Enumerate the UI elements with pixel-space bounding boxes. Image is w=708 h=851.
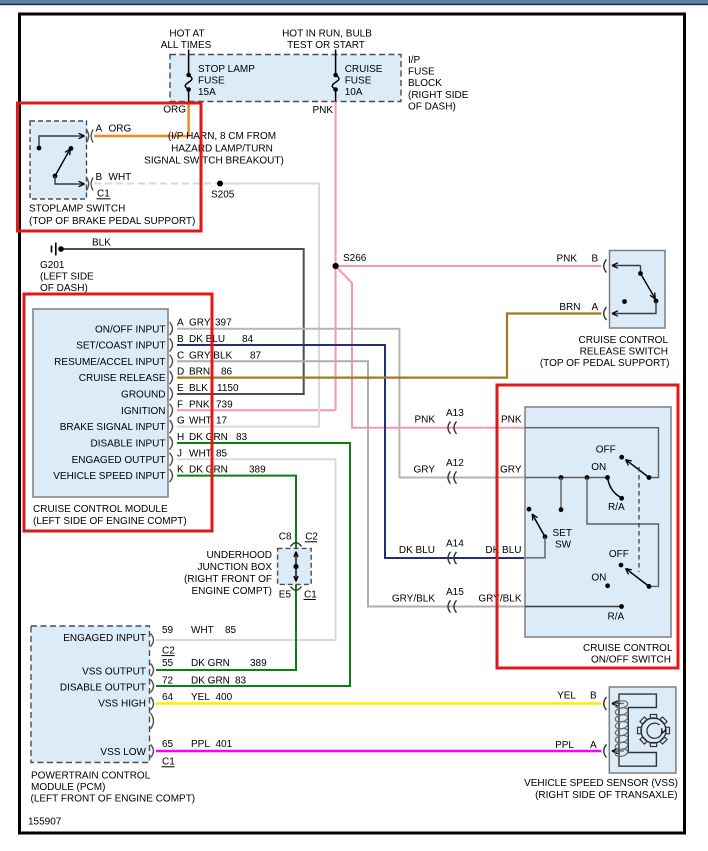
svg-text:(LEFT SIDE: (LEFT SIDE	[40, 271, 94, 282]
svg-text:A: A	[177, 318, 184, 329]
svg-text:389: 389	[250, 658, 267, 669]
svg-text:VEHICLE SPEED SENSOR (VSS): VEHICLE SPEED SENSOR (VSS)	[524, 778, 678, 789]
svg-text:C8: C8	[279, 532, 292, 543]
svg-text:DK GRN: DK GRN	[189, 432, 228, 443]
svg-text:ON/OFF SWITCH: ON/OFF SWITCH	[591, 655, 671, 666]
svg-text:(LEFT SIDE OF ENGINE COMPT): (LEFT SIDE OF ENGINE COMPT)	[33, 516, 187, 527]
svg-text:SW: SW	[555, 539, 572, 550]
svg-text:(TOP OF BRAKE PEDAL SUPPORT): (TOP OF BRAKE PEDAL SUPPORT)	[29, 216, 195, 227]
svg-text:H: H	[177, 432, 184, 443]
svg-text:HOT AT: HOT AT	[169, 29, 204, 40]
svg-text:VSS OUTPUT: VSS OUTPUT	[82, 666, 146, 677]
svg-text:DK BLU: DK BLU	[189, 334, 225, 345]
svg-text:E5: E5	[279, 589, 292, 600]
svg-text:GROUND: GROUND	[121, 390, 165, 401]
svg-text:R/A: R/A	[608, 612, 625, 623]
svg-text:WHT: WHT	[189, 448, 212, 459]
svg-text:ORG: ORG	[109, 124, 132, 135]
svg-text:FUSE: FUSE	[408, 67, 435, 78]
svg-text:GRY/BLK: GRY/BLK	[392, 594, 435, 605]
svg-text:CRUISE: CRUISE	[345, 64, 383, 75]
svg-text:OFF: OFF	[596, 444, 616, 455]
svg-text:WHT: WHT	[191, 625, 214, 636]
svg-text:85: 85	[225, 625, 237, 636]
svg-text:VEHICLE SPEED INPUT: VEHICLE SPEED INPUT	[53, 471, 165, 482]
svg-text:(LEFT FRONT OF ENGINE COMPT): (LEFT FRONT OF ENGINE COMPT)	[31, 794, 196, 805]
svg-text:DISABLE OUTPUT: DISABLE OUTPUT	[60, 683, 146, 694]
svg-text:I/P: I/P	[408, 55, 421, 66]
svg-text:A: A	[590, 740, 597, 751]
svg-text:(I/P HARN, 8 CM FROM: (I/P HARN, 8 CM FROM	[168, 131, 276, 142]
svg-text:64: 64	[162, 692, 174, 703]
svg-text:F: F	[177, 399, 183, 410]
svg-text:DK BLU: DK BLU	[485, 545, 521, 556]
svg-text:ENGINE COMPT): ENGINE COMPT)	[191, 586, 272, 597]
svg-text:85: 85	[216, 448, 228, 459]
svg-text:C1: C1	[162, 757, 175, 768]
svg-text:YEL: YEL	[191, 692, 210, 703]
svg-text:MODULE (PCM): MODULE (PCM)	[31, 782, 105, 793]
svg-text:DK GRN: DK GRN	[191, 658, 230, 669]
svg-text:PNK: PNK	[501, 415, 522, 426]
svg-text:STOP LAMP: STOP LAMP	[198, 64, 255, 75]
svg-text:C: C	[177, 350, 184, 361]
svg-text:BLOCK: BLOCK	[408, 78, 442, 89]
svg-text:POWERTRAIN CONTROL: POWERTRAIN CONTROL	[31, 771, 151, 782]
svg-text:A: A	[96, 124, 103, 135]
svg-text:GRY/BLK: GRY/BLK	[478, 594, 521, 605]
svg-text:59: 59	[162, 625, 174, 636]
svg-text:FUSE: FUSE	[345, 76, 372, 87]
svg-text:BRN: BRN	[189, 367, 210, 378]
svg-text:BLK: BLK	[189, 383, 208, 394]
svg-text:397: 397	[215, 318, 232, 329]
svg-text:SET: SET	[553, 528, 572, 539]
svg-text:WHT: WHT	[189, 416, 212, 427]
svg-text:RELEASE SWITCH: RELEASE SWITCH	[580, 347, 668, 358]
svg-text:55: 55	[162, 658, 174, 669]
svg-text:PNK: PNK	[414, 415, 435, 426]
svg-text:ON: ON	[591, 462, 606, 473]
svg-text:(TOP OF PEDAL SUPPORT): (TOP OF PEDAL SUPPORT)	[540, 358, 670, 369]
svg-text:A12: A12	[446, 458, 464, 469]
svg-text:B: B	[592, 254, 599, 265]
svg-text:BLK: BLK	[92, 237, 111, 248]
svg-text:10A: 10A	[345, 87, 363, 98]
svg-text:DISABLE INPUT: DISABLE INPUT	[90, 439, 165, 450]
svg-text:(RIGHT FRONT OF: (RIGHT FRONT OF	[184, 574, 272, 585]
svg-text:15A: 15A	[198, 87, 216, 98]
svg-text:ORG: ORG	[163, 105, 186, 116]
svg-text:UNDERHOOD: UNDERHOOD	[206, 550, 272, 561]
svg-text:ENGAGED OUTPUT: ENGAGED OUTPUT	[72, 455, 166, 466]
svg-text:ALL TIMES: ALL TIMES	[161, 40, 212, 51]
svg-text:155907: 155907	[28, 817, 62, 828]
svg-text:72: 72	[162, 676, 174, 687]
svg-text:RESUME/ACCEL INPUT: RESUME/ACCEL INPUT	[54, 357, 165, 368]
svg-text:R/A: R/A	[608, 502, 625, 513]
svg-text:B: B	[96, 172, 103, 183]
svg-text:G201: G201	[40, 260, 65, 271]
svg-text:WHT: WHT	[109, 172, 132, 183]
svg-text:VSS HIGH: VSS HIGH	[98, 699, 146, 710]
svg-text:S205: S205	[211, 190, 235, 201]
svg-text:A15: A15	[446, 587, 464, 598]
svg-text:DK GRN: DK GRN	[189, 465, 228, 476]
svg-text:E: E	[177, 383, 184, 394]
svg-text:B: B	[590, 690, 597, 701]
svg-text:PPL: PPL	[191, 739, 210, 750]
svg-text:D: D	[177, 367, 184, 378]
svg-text:HOT IN RUN, BULB: HOT IN RUN, BULB	[282, 29, 372, 40]
svg-text:PNK: PNK	[312, 105, 333, 116]
svg-text:401: 401	[216, 739, 233, 750]
svg-text:(RIGHT SIDE OF TRANSAXLE): (RIGHT SIDE OF TRANSAXLE)	[535, 790, 677, 801]
svg-text:1150: 1150	[217, 383, 239, 394]
svg-text:PNK: PNK	[556, 254, 577, 265]
svg-text:J: J	[177, 448, 182, 459]
svg-text:ON/OFF INPUT: ON/OFF INPUT	[95, 324, 166, 335]
svg-text:BRN: BRN	[559, 302, 580, 313]
svg-text:CRUISE CONTROL: CRUISE CONTROL	[583, 643, 673, 654]
svg-text:17: 17	[216, 416, 228, 427]
svg-text:SIGNAL SWITCH BREAKOUT): SIGNAL SWITCH BREAKOUT)	[144, 156, 284, 167]
svg-text:BRAKE SIGNAL INPUT: BRAKE SIGNAL INPUT	[60, 422, 166, 433]
svg-text:SET/COAST INPUT: SET/COAST INPUT	[76, 341, 165, 352]
svg-text:84: 84	[242, 334, 254, 345]
svg-text:739: 739	[216, 399, 233, 410]
svg-text:DK BLU: DK BLU	[399, 545, 435, 556]
svg-text:C1: C1	[304, 589, 317, 600]
svg-text:OFF: OFF	[609, 549, 629, 560]
svg-text:PPL: PPL	[555, 740, 574, 751]
svg-text:IGNITION: IGNITION	[121, 406, 165, 417]
svg-text:STOPLAMP SWITCH: STOPLAMP SWITCH	[29, 204, 125, 215]
svg-text:PNK: PNK	[189, 399, 210, 410]
svg-text:CRUISE CONTROL MODULE: CRUISE CONTROL MODULE	[33, 504, 168, 515]
svg-text:HAZARD LAMP/TURN: HAZARD LAMP/TURN	[171, 143, 273, 154]
svg-text:G: G	[177, 416, 185, 427]
svg-text:83: 83	[236, 432, 248, 443]
svg-text:A: A	[592, 302, 599, 313]
svg-text:CRUISE CONTROL: CRUISE CONTROL	[579, 335, 669, 346]
svg-text:GRY: GRY	[189, 318, 211, 329]
svg-text:VSS LOW: VSS LOW	[100, 747, 146, 758]
svg-text:GRY: GRY	[500, 465, 522, 476]
svg-text:YEL: YEL	[557, 690, 576, 701]
svg-text:OF DASH): OF DASH)	[40, 283, 88, 294]
svg-text:83: 83	[235, 676, 247, 687]
svg-text:A14: A14	[446, 539, 464, 550]
svg-text:FUSE: FUSE	[198, 76, 225, 87]
svg-text:(RIGHT SIDE: (RIGHT SIDE	[408, 90, 469, 101]
svg-text:ON: ON	[591, 573, 606, 584]
svg-text:TEST OR START: TEST OR START	[287, 40, 365, 51]
svg-text:A13: A13	[446, 408, 464, 419]
svg-text:S266: S266	[343, 253, 367, 264]
svg-text:C1: C1	[97, 189, 110, 200]
svg-text:C2: C2	[162, 645, 175, 656]
svg-text:K: K	[177, 465, 184, 476]
svg-text:DK GRN: DK GRN	[191, 676, 230, 687]
svg-text:GRY: GRY	[414, 465, 436, 476]
svg-text:B: B	[177, 334, 184, 345]
svg-text:ENGAGED INPUT: ENGAGED INPUT	[63, 633, 146, 644]
svg-text:389: 389	[249, 465, 266, 476]
svg-text:JUNCTION BOX: JUNCTION BOX	[198, 562, 273, 573]
svg-text:87: 87	[250, 350, 262, 361]
svg-text:C2: C2	[305, 532, 318, 543]
svg-text:86: 86	[221, 367, 233, 378]
svg-text:OF DASH): OF DASH)	[408, 101, 456, 112]
svg-text:65: 65	[162, 739, 174, 750]
svg-text:CRUISE RELEASE: CRUISE RELEASE	[79, 373, 166, 384]
svg-text:400: 400	[216, 692, 233, 703]
